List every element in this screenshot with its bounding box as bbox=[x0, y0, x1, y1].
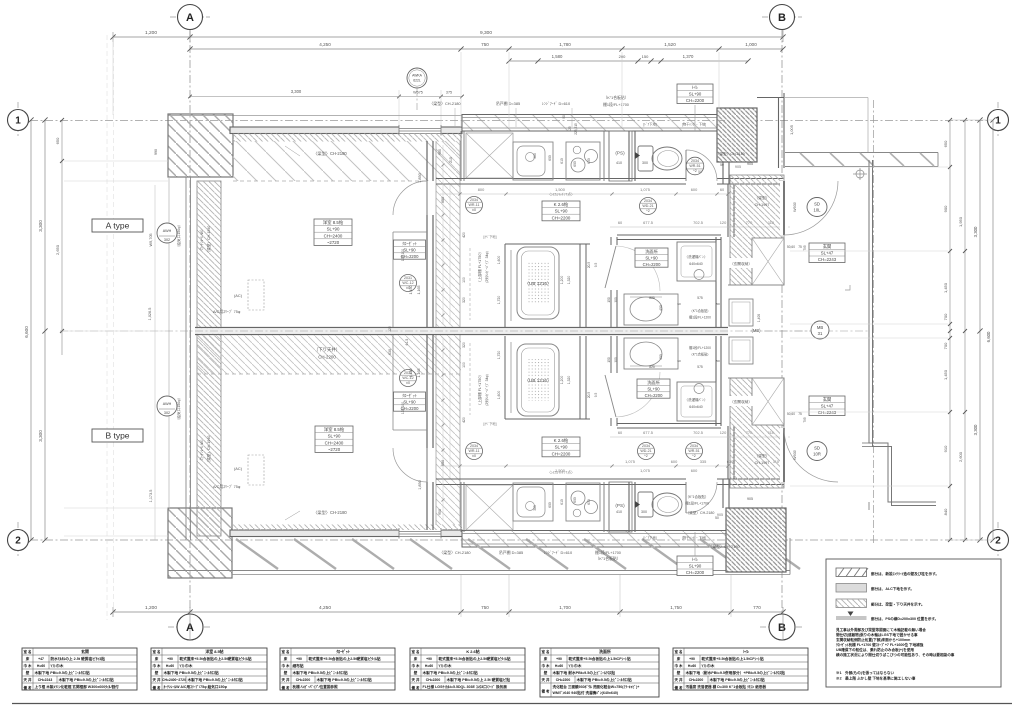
badge WD-21 A bbox=[640, 198, 657, 215]
svg-text:10L: 10L bbox=[814, 208, 822, 213]
AWH vent B bbox=[157, 396, 177, 416]
left vertical dashed extensions bbox=[106, 35, 108, 620]
wall block bottom-right (dark) bbox=[726, 508, 786, 572]
entry door B bbox=[780, 428, 788, 482]
fridge space A bbox=[466, 133, 513, 178]
svg-text:（K"1合板貼）: （K"1合板貼） bbox=[690, 308, 711, 313]
grid line A vertical bbox=[189, 30, 191, 640]
svg-text:巾 木: 巾 木 bbox=[675, 663, 683, 668]
svg-text:2034: 2034 bbox=[642, 444, 650, 448]
svg-text:122: 122 bbox=[388, 326, 392, 332]
svg-text:3,300: 3,300 bbox=[973, 424, 978, 435]
svg-text:650: 650 bbox=[943, 140, 948, 147]
svg-text:乾式置床+5.5t合板貼の上1.5tCFｼｰﾄ貼: 乾式置床+5.5t合板貼の上1.5tCFｼｰﾄ貼 bbox=[569, 656, 631, 661]
svg-text:備 考: 備 考 bbox=[542, 689, 550, 694]
svg-text:9,300: 9,300 bbox=[480, 30, 492, 36]
svg-text:600: 600 bbox=[548, 155, 552, 161]
left extension lines bbox=[64, 160, 168, 162]
grid bubble B bottom bbox=[769, 614, 795, 640]
B-unit lowered ceiling band bbox=[197, 335, 461, 374]
svg-text:ﾚﾝｼﾞﾌｰﾄﾞ D=610: ﾚﾝｼﾞﾌｰﾄﾞ D=610 bbox=[542, 101, 571, 106]
grid bubble stubs bbox=[170, 16, 210, 18]
A type label bbox=[92, 219, 143, 232]
AC unit B bbox=[248, 455, 264, 485]
room label B bbox=[315, 426, 353, 452]
svg-text:50: 50 bbox=[698, 170, 702, 174]
svg-text:1,400: 1,400 bbox=[757, 314, 761, 322]
closet label A bbox=[394, 240, 426, 259]
MB zone bbox=[728, 284, 784, 286]
svg-text:825: 825 bbox=[649, 365, 655, 369]
svg-text:AWKA: AWKA bbox=[412, 74, 423, 78]
svg-text:K 2.6帖: K 2.6帖 bbox=[554, 201, 569, 208]
legend row 1 concrete bbox=[836, 568, 867, 577]
toilet label box B bbox=[677, 556, 713, 576]
svg-text:床: 床 bbox=[26, 656, 30, 661]
svg-text:CH=2200: CH=2200 bbox=[686, 98, 705, 103]
svg-text:31: 31 bbox=[818, 331, 823, 336]
corridor top band bbox=[785, 152, 938, 154]
svg-text:1,850: 1,850 bbox=[418, 173, 422, 183]
svg-text:SL+90: SL+90 bbox=[645, 255, 658, 260]
svg-text:H=60: H=60 bbox=[688, 664, 696, 668]
svg-text:H=60: H=60 bbox=[555, 664, 563, 668]
toilet door B bbox=[686, 482, 717, 513]
svg-text:ﾄｲﾚ: ﾄｲﾚ bbox=[692, 557, 698, 562]
svg-text:*2: *2 bbox=[646, 209, 649, 213]
svg-text:室 名: 室 名 bbox=[542, 649, 550, 654]
washroom label A bbox=[635, 248, 668, 267]
svg-text:905: 905 bbox=[747, 162, 753, 166]
svg-text:棚1段/FL+1700: 棚1段/FL+1700 bbox=[603, 102, 629, 107]
svg-text:ﾄｲﾚ: ﾄｲﾚ bbox=[692, 85, 698, 90]
svg-text:60: 60 bbox=[677, 359, 681, 363]
grid line B vertical bbox=[781, 30, 783, 640]
interior dim ladders A bbox=[442, 145, 444, 325]
svg-text:+47: +47 bbox=[38, 657, 44, 661]
wall block top-right (dark) bbox=[717, 108, 757, 162]
svg-text:〈梁型〉CH-2180: 〈梁型〉CH-2180 bbox=[313, 509, 347, 516]
svg-text:WR-51: WR-51 bbox=[689, 164, 700, 168]
svg-text:20.5: 20.5 bbox=[587, 262, 591, 268]
svg-text:K 2.6帖: K 2.6帖 bbox=[466, 649, 479, 654]
svg-text:〈UB 1216〉: 〈UB 1216〉 bbox=[524, 281, 551, 286]
svg-text:1,165: 1,165 bbox=[417, 286, 421, 295]
top outer wall kitchen part bbox=[462, 115, 727, 132]
inner left dim bbox=[154, 185, 156, 540]
svg-text:天 井: 天 井 bbox=[675, 677, 683, 682]
PS shaft A bbox=[609, 131, 632, 181]
svg-text:1,450: 1,450 bbox=[409, 369, 413, 378]
svg-text:+90: +90 bbox=[296, 657, 302, 661]
svg-text:750: 750 bbox=[481, 42, 489, 47]
toilet east wall A bbox=[722, 162, 724, 184]
right extension lines bbox=[790, 166, 948, 168]
svg-text:905: 905 bbox=[747, 497, 753, 501]
svg-text:SD: SD bbox=[814, 446, 820, 451]
wall block bottom-left bbox=[168, 508, 232, 578]
svg-text:600: 600 bbox=[573, 497, 577, 503]
svg-text:795: 795 bbox=[803, 245, 807, 251]
svg-text:壁: 壁 bbox=[154, 670, 159, 675]
svg-text:部分は、新設ｺﾝｸﾘｰﾄ造の壁及び柱を示す。: 部分は、新設ｺﾝｸﾘｰﾄ造の壁及び柱を示す。 bbox=[871, 571, 939, 576]
svg-text:677.5: 677.5 bbox=[643, 220, 653, 225]
svg-text:302: 302 bbox=[164, 238, 170, 242]
svg-text:CH=2200: CH=2200 bbox=[426, 678, 441, 682]
bottom outer wall living part bbox=[230, 528, 462, 539]
svg-text:640x640: 640x640 bbox=[689, 405, 702, 409]
svg-text:[物干ﾊﾝｶﾞｰ 下地]: [物干ﾊﾝｶﾞｰ 下地] bbox=[682, 122, 706, 127]
svg-text:1,720: 1,720 bbox=[497, 351, 501, 360]
entry hall hatch B bbox=[730, 378, 784, 488]
svg-text:1,026.5: 1,026.5 bbox=[148, 308, 152, 321]
svg-text:*2: *2 bbox=[692, 454, 695, 458]
svg-text:ﾚﾝｼﾞﾌｰﾄﾞ D=610: ﾚﾝｼﾞﾌｰﾄﾞ D=610 bbox=[544, 550, 573, 555]
svg-text:1,000: 1,000 bbox=[745, 42, 757, 47]
svg-text:4,250: 4,250 bbox=[319, 605, 331, 611]
badge WR-51 A bbox=[686, 157, 704, 175]
spec table 玄関 bbox=[22, 648, 137, 690]
svg-text:〈梁型〉CH-2180: 〈梁型〉CH-2180 bbox=[439, 550, 471, 555]
svg-text:950: 950 bbox=[441, 197, 445, 203]
svg-text:1,520: 1,520 bbox=[664, 42, 676, 47]
living door B bbox=[426, 448, 428, 482]
svg-text:1,950: 1,950 bbox=[958, 216, 963, 227]
svg-text:575: 575 bbox=[697, 365, 703, 369]
svg-text:3,300: 3,300 bbox=[38, 220, 43, 232]
svg-text:(PS): (PS) bbox=[615, 503, 625, 508]
svg-text:450: 450 bbox=[659, 354, 663, 360]
svg-text:ｸﾛｰｾﾞｯﾄ: ｸﾛｰｾﾞｯﾄ bbox=[336, 649, 350, 654]
corridor wall east bbox=[869, 160, 936, 502]
svg-text:備 考: 備 考 bbox=[153, 685, 161, 690]
svg-text:1,500: 1,500 bbox=[555, 187, 566, 192]
svg-text:巾 木: 巾 木 bbox=[412, 663, 420, 668]
spec table K bbox=[410, 648, 525, 690]
svg-text:※2 最上階 ふかし壁 下地を基準に施工しない事: ※2 最上階 ふかし壁 下地を基準に施工しない事 bbox=[836, 676, 916, 681]
shelf column B bbox=[469, 343, 471, 415]
svg-text:410: 410 bbox=[616, 161, 622, 165]
svg-text:90: 90 bbox=[562, 115, 566, 119]
spec table トイレ bbox=[673, 648, 808, 690]
svg-text:320: 320 bbox=[462, 342, 466, 348]
svg-text:木製下地 PBt=9.5の上ﾋﾞﾆｰﾙｸﾛｽ貼: 木製下地 PBt=9.5の上ﾋﾞﾆｰﾙｸﾛｽ貼 bbox=[163, 670, 220, 675]
svg-text:3,300: 3,300 bbox=[291, 89, 302, 94]
svg-text:ｿﾌﾄ巾木: ｿﾌﾄ巾木 bbox=[51, 663, 64, 668]
svg-text:〈梁型〉CH-2180: 〈梁型〉CH-2180 bbox=[686, 510, 715, 515]
svg-text:1,600: 1,600 bbox=[497, 256, 501, 265]
svg-text:SL+90: SL+90 bbox=[327, 227, 340, 232]
svg-text:SD: SD bbox=[814, 202, 820, 207]
svg-text:洗面所: 洗面所 bbox=[647, 379, 660, 386]
svg-text:302: 302 bbox=[164, 411, 170, 415]
SD badge B bbox=[807, 442, 827, 461]
svg-text:3,300: 3,300 bbox=[38, 430, 43, 442]
grid dash overlay on kitchen bands bbox=[462, 120, 727, 122]
svg-text:※1 外部(もの)を張ってはならない: ※1 外部(もの)を張ってはならない bbox=[836, 670, 894, 675]
badge WC-12 B bbox=[400, 370, 417, 387]
svg-text:天 井: 天 井 bbox=[282, 677, 290, 682]
svg-text:WMﾊﾟﾝ640 940貼付 洗濯機ﾊﾟﾝ(640x64: WMﾊﾟﾝ640 940貼付 洗濯機ﾊﾟﾝ(640x640) bbox=[553, 690, 619, 695]
svg-text:(AC): (AC) bbox=[234, 466, 243, 471]
washroom west wall A bbox=[610, 237, 612, 245]
svg-text:CH=2200: CH=2200 bbox=[556, 678, 571, 682]
corridor south wall A / bath north wall bbox=[505, 243, 590, 245]
svg-text:+90: +90 bbox=[689, 657, 695, 661]
svg-text:60: 60 bbox=[677, 302, 681, 306]
svg-text:CH=2200: CH=2200 bbox=[686, 570, 705, 575]
svg-text:W930: W930 bbox=[793, 450, 797, 460]
svg-text:375: 375 bbox=[446, 91, 452, 95]
grid bubble 1 right bbox=[988, 110, 1009, 131]
A-unit lowered ceiling band bbox=[233, 141, 460, 181]
svg-text:ｿﾌﾄ巾木: ｿﾌﾄ巾木 bbox=[569, 663, 582, 668]
svg-text:600: 600 bbox=[671, 459, 678, 464]
top-right corner wall bbox=[757, 97, 784, 99]
svg-text:洗面所: 洗面所 bbox=[645, 248, 658, 255]
grid bubble B top bbox=[770, 5, 795, 30]
bottom dimension row bbox=[113, 611, 783, 613]
svg-text:61.5: 61.5 bbox=[405, 339, 409, 346]
MB badge bbox=[811, 321, 829, 339]
grid line 1 horizontal bbox=[30, 120, 988, 122]
svg-text:SL+90: SL+90 bbox=[555, 445, 568, 450]
kitchen west wall A bbox=[460, 131, 462, 181]
svg-text:410: 410 bbox=[616, 510, 622, 514]
svg-text:±0: ±0 bbox=[406, 381, 410, 385]
svg-text:A: A bbox=[186, 12, 194, 24]
interior dim ladders B bbox=[442, 338, 444, 520]
toilet label box A bbox=[677, 84, 713, 104]
svg-text:洗面所: 洗面所 bbox=[599, 649, 611, 654]
svg-text:床: 床 bbox=[284, 656, 288, 661]
svg-text:SL+90: SL+90 bbox=[647, 386, 660, 391]
svg-text:[ｶﾍﾞ下地]: [ｶﾍﾞ下地] bbox=[484, 421, 497, 426]
svg-text:WR-51: WR-51 bbox=[688, 449, 699, 453]
grid bubble 2 right bbox=[988, 530, 1009, 551]
svg-text:AWH: AWH bbox=[163, 402, 172, 406]
svg-text:CH=2400: CH=2400 bbox=[325, 440, 344, 445]
svg-text:ｿﾌﾄ巾木: ｿﾌﾄ巾木 bbox=[180, 663, 193, 668]
party wall bbox=[195, 327, 728, 329]
svg-text:部分は、PSの横D=200x300 位置を示す。: 部分は、PSの横D=200x300 位置を示す。 bbox=[871, 616, 938, 621]
svg-text:750: 750 bbox=[481, 605, 489, 610]
svg-text:W575: W575 bbox=[413, 91, 423, 95]
svg-text:*2: *2 bbox=[693, 169, 696, 173]
left dim lines bbox=[30, 120, 32, 540]
svg-text:A/C用ｽﾘｰﾌﾞ 75φ: A/C用ｽﾘｰﾌﾞ 75φ bbox=[213, 309, 241, 314]
svg-text:吊戸棚 D=385: 吊戸棚 D=385 bbox=[496, 101, 520, 106]
svg-text:壁: 壁 bbox=[283, 670, 288, 675]
vanity B bbox=[624, 338, 678, 369]
washroom door B bbox=[605, 375, 616, 417]
svg-text:[ｶﾍﾞ下地]: [ｶﾍﾞ下地] bbox=[484, 234, 497, 239]
svg-text:+90: +90 bbox=[556, 657, 562, 661]
washroom label B bbox=[637, 379, 670, 398]
svg-text:室 名: 室 名 bbox=[282, 649, 290, 654]
entry hall hatch A bbox=[730, 175, 784, 285]
svg-text:215: 215 bbox=[449, 157, 453, 163]
svg-text:木製下地 PBt=9.5の上 2.5t 硬質塩ビ貼: 木製下地 PBt=9.5の上 2.5t 硬質塩ビ貼 bbox=[446, 677, 511, 682]
svg-text:420: 420 bbox=[462, 232, 466, 238]
svg-text:W9,705: W9,705 bbox=[149, 233, 153, 246]
svg-text:〈梁型〉CH-2180: 〈梁型〉CH-2180 bbox=[708, 544, 740, 549]
svg-text:(2列ﾊﾝｶﾞｰﾊﾟｲﾌﾟ 34φ): (2列ﾊﾝｶﾞｰﾊﾟｲﾌﾟ 34φ) bbox=[484, 374, 489, 405]
svg-text:100: 100 bbox=[462, 277, 466, 283]
grid bubble A top bbox=[178, 5, 203, 30]
svg-text:905: 905 bbox=[735, 165, 741, 169]
svg-text:1,850: 1,850 bbox=[418, 480, 422, 490]
svg-text:ｸﾛｰｾﾞｯﾄ: ｸﾛｰｾﾞｯﾄ bbox=[402, 241, 417, 246]
svg-text:H=60: H=60 bbox=[37, 664, 45, 668]
svg-text:FL仕様 LGSｹｲｶﾙt=5.5DQL 303E ｺﾝﾛ3: FL仕様 LGSｹｲｶﾙt=5.5DQL 303E ｺﾝﾛ3口/ﾌｰﾄﾞ 換気扇 bbox=[423, 684, 508, 689]
svg-text:SL+47: SL+47 bbox=[821, 404, 834, 409]
svg-text:細布貼: 細布貼 bbox=[293, 663, 304, 668]
svg-text:50,60: 50,60 bbox=[787, 412, 795, 416]
svg-text:天 井: 天 井 bbox=[24, 677, 32, 682]
svg-text:SL+90: SL+90 bbox=[403, 247, 416, 252]
svg-text:150: 150 bbox=[607, 357, 611, 363]
balcony strip bottom bbox=[236, 539, 800, 569]
svg-text:1: 1 bbox=[995, 116, 1001, 127]
svg-text:〈梁型〉CH-2180: 〈梁型〉CH-2180 bbox=[313, 150, 347, 157]
svg-text:905: 905 bbox=[717, 513, 723, 517]
toilet east wall B bbox=[722, 479, 724, 508]
legend row 4 PS bbox=[848, 612, 854, 617]
svg-text:木製下地（耐水PBt=9.5併用部分）+PBt=9.5の上ﾋ: 木製下地（耐水PBt=9.5併用部分）+PBt=9.5の上ﾋﾞﾆｰﾙｸﾛｽ貼 bbox=[685, 670, 786, 675]
svg-text:〈梁型〉: 〈梁型〉 bbox=[755, 195, 770, 200]
svg-text:1,600: 1,600 bbox=[497, 391, 501, 400]
svg-text:610: 610 bbox=[560, 158, 564, 164]
svg-text:ｿﾌﾄ巾木: ｿﾌﾄ巾木 bbox=[702, 663, 715, 668]
svg-text:WR-11: WR-11 bbox=[469, 203, 480, 207]
svg-text:CH=2243: CH=2243 bbox=[38, 678, 53, 682]
svg-text:2034: 2034 bbox=[470, 444, 478, 448]
B type label bbox=[92, 429, 143, 442]
SD badge A bbox=[807, 198, 827, 217]
kitchen side wall B bbox=[603, 482, 605, 532]
bath B walls bbox=[504, 336, 506, 419]
svg-text:木製下地 PBt=9.5の上ﾋﾞﾆｰﾙｸﾛｽ貼: 木製下地 PBt=9.5の上ﾋﾞﾆｰﾙｸﾛｽ貼 bbox=[187, 677, 244, 682]
svg-text:3,300: 3,300 bbox=[973, 226, 978, 237]
svg-text:702.5: 702.5 bbox=[693, 430, 703, 435]
svg-text:乾式置床+5.5t合板貼の上1.5tCFｼｰﾄ貼: 乾式置床+5.5t合板貼の上1.5tCFｼｰﾄ貼 bbox=[702, 656, 764, 661]
svg-text:壁: 壁 bbox=[676, 670, 681, 675]
closet B walls bbox=[393, 429, 427, 431]
svg-text:2034: 2034 bbox=[470, 198, 478, 202]
svg-text:[物干ﾊﾝｶﾞｰ 下地]: [物干ﾊﾝｶﾞｰ 下地] bbox=[682, 535, 706, 540]
svg-text:640x640: 640x640 bbox=[689, 262, 702, 266]
svg-text:巾 木: 巾 木 bbox=[153, 663, 161, 668]
svg-text:2031: 2031 bbox=[404, 276, 412, 280]
svg-text:備 考: 備 考 bbox=[412, 685, 420, 690]
svg-text:700: 700 bbox=[943, 313, 948, 320]
stove A bbox=[566, 142, 600, 180]
svg-text:木製下地 PBt=9.5の上ﾋﾞﾆｰﾙｸﾛｽ貼: 木製下地 PBt=9.5の上ﾋﾞﾆｰﾙｸﾛｽ貼 bbox=[709, 677, 766, 682]
svg-text:[ﾄﾞｱ下地]: [ﾄﾞｱ下地] bbox=[643, 122, 656, 127]
svg-text:135,100: 135,100 bbox=[401, 402, 405, 414]
svg-text:床: 床 bbox=[155, 656, 159, 661]
badge WR-11 B bbox=[466, 443, 483, 460]
svg-text:CH=2400: CH=2400 bbox=[324, 233, 343, 238]
svg-text:1,450: 1,450 bbox=[409, 286, 413, 295]
svg-text:600: 600 bbox=[691, 468, 698, 473]
svg-text:CH=2200: CH=2200 bbox=[689, 678, 704, 682]
K label B bbox=[542, 437, 580, 457]
svg-text:巾 木: 巾 木 bbox=[542, 663, 550, 668]
svg-text:棚1段/FL+1700: 棚1段/FL+1700 bbox=[685, 501, 709, 506]
svg-text:木製下地 PBt=9.5の上ﾋﾞﾆｰﾙｸﾛｽ貼: 木製下地 PBt=9.5の上ﾋﾞﾆｰﾙｸﾛｽ貼 bbox=[34, 670, 91, 675]
svg-text:室 名: 室 名 bbox=[24, 649, 32, 654]
svg-text:2,600: 2,600 bbox=[958, 451, 963, 462]
legend box bbox=[826, 559, 1001, 687]
spec table クローゼット bbox=[280, 648, 395, 690]
svg-text:600: 600 bbox=[573, 161, 577, 167]
stove B bbox=[566, 483, 600, 521]
svg-text:WD-21: WD-21 bbox=[642, 204, 653, 208]
svg-text:1,750: 1,750 bbox=[670, 605, 682, 610]
svg-text:〈梁型〉CH-1940: 〈梁型〉CH-1940 bbox=[206, 226, 211, 255]
svg-text:SL+90: SL+90 bbox=[328, 434, 341, 439]
svg-text:200: 200 bbox=[619, 54, 626, 59]
bathtub A bbox=[517, 247, 559, 319]
svg-text:1,075: 1,075 bbox=[640, 468, 650, 473]
balcony top edge line bbox=[168, 115, 462, 117]
grid bubble A bottom bbox=[177, 614, 203, 640]
svg-text:（給気口150φ）: （給気口150φ） bbox=[176, 396, 181, 422]
svg-text:B: B bbox=[778, 622, 786, 634]
svg-text:1,450: 1,450 bbox=[943, 282, 948, 293]
entry label A bbox=[809, 243, 845, 263]
svg-text:壁: 壁 bbox=[25, 670, 30, 675]
svg-text:CH=2200: CH=2200 bbox=[643, 262, 661, 267]
svg-text:備 考: 備 考 bbox=[675, 685, 683, 690]
svg-text:見工事は外周部及び梁型等図面にて木軸記載の無い場合: 見工事は外周部及び梁型等図面にて木軸記載の無い場合 bbox=[835, 627, 926, 632]
svg-text:385: 385 bbox=[533, 153, 537, 159]
grid line 2 horizontal bbox=[30, 539, 988, 541]
svg-text:335: 335 bbox=[700, 459, 707, 464]
svg-text:床: 床 bbox=[677, 656, 681, 661]
svg-text:棚1段/FL+1700: 棚1段/FL+1700 bbox=[595, 550, 621, 555]
svg-text:洋室 8.5帖: 洋室 8.5帖 bbox=[323, 219, 344, 226]
svg-text:（玄関収納）: （玄関収納） bbox=[730, 399, 752, 404]
svg-text:木製下地 PBt=9.5の上ﾋﾞﾆｰﾙｸﾛｽ貼: 木製下地 PBt=9.5の上ﾋﾞﾆｰﾙｸﾛｽ貼 bbox=[292, 670, 349, 675]
svg-text:B type: B type bbox=[105, 431, 129, 441]
svg-text:棚1段/FL+1200: 棚1段/FL+1200 bbox=[689, 345, 711, 350]
svg-text:床: 床 bbox=[544, 656, 548, 661]
svg-text:吊戸棚 D=385: 吊戸棚 D=385 bbox=[499, 550, 523, 555]
svg-text:巾 木: 巾 木 bbox=[24, 663, 32, 668]
svg-text:玄関: 玄関 bbox=[823, 396, 832, 403]
svg-text:壁: 壁 bbox=[413, 670, 418, 675]
svg-text:備 考: 備 考 bbox=[24, 685, 32, 690]
svg-text:SL+90: SL+90 bbox=[555, 209, 568, 214]
svg-text:巾 木: 巾 木 bbox=[282, 663, 290, 668]
svg-text:+90: +90 bbox=[167, 657, 173, 661]
svg-text:H=60: H=60 bbox=[425, 664, 433, 668]
svg-text:2,650: 2,650 bbox=[55, 244, 60, 255]
svg-text:1: 1 bbox=[15, 116, 21, 127]
svg-text:木製下地 PBt=9.5の上ﾋﾞﾆｰﾙｸﾛｽ貼: 木製下地 PBt=9.5の上ﾋﾞﾆｰﾙｸﾛｽ貼 bbox=[576, 677, 633, 682]
svg-text:(2列ﾊﾝｶﾞｰﾊﾟｲﾌﾟ 34φ): (2列ﾊﾝｶﾞｰﾊﾟｲﾌﾟ 34φ) bbox=[484, 251, 489, 282]
svg-text:9.5: 9.5 bbox=[594, 393, 598, 398]
svg-text:横の施工状況により間仕切りばこびつの可能性あり、その時は要相: 横の施工状況により間仕切りばこびつの可能性あり、その時は要相談の事 bbox=[836, 652, 955, 657]
svg-text:洋室 8.5帖: 洋室 8.5帖 bbox=[205, 649, 223, 654]
grid bubble 2 left bbox=[8, 530, 29, 551]
svg-text:1,320: 1,320 bbox=[567, 376, 571, 385]
svg-text:備 考: 備 考 bbox=[282, 685, 290, 690]
svg-text:75: 75 bbox=[798, 412, 802, 416]
